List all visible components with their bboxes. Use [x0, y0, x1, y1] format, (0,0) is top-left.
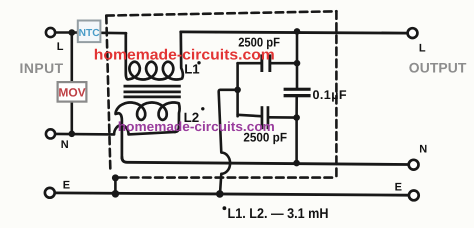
junction E wire / shield stub — [112, 190, 120, 198]
shield box top border (dashed) — [106, 11, 336, 15]
inductor L1 — [126, 32, 183, 80]
terminal L input — [46, 28, 55, 37]
terminal N output — [409, 160, 419, 170]
shield box left border (dashed) — [106, 16, 110, 172]
svg-text:0.1µF: 0.1µF — [313, 88, 347, 102]
junction N rail node — [293, 160, 300, 167]
junction L input / MOV / NTC — [69, 29, 76, 36]
wire top rail L — [181, 32, 408, 33]
wire NTC to L1 top corner — [100, 31, 126, 34]
junction L rail to cap network — [294, 28, 301, 35]
terminal E input — [45, 188, 55, 198]
svg-text:INPUT: INPUT — [20, 60, 64, 76]
core lines — [124, 86, 181, 97]
svg-text:N: N — [61, 139, 69, 151]
wire junction to NTC — [72, 31, 78, 34]
svg-text:E: E — [63, 180, 70, 192]
capacitor C3 plates (0.1uF) — [284, 88, 311, 91]
svg-text:OUTPUT: OUTPUT — [409, 60, 467, 76]
capacitor C1 plates (2500 pF top) — [260, 54, 310, 129]
svg-text:MOV: MOV — [58, 86, 85, 100]
svg-text:N: N — [419, 143, 427, 155]
terminal L output — [408, 28, 418, 38]
capacitor C2 2500pF bottom: left wire — [238, 115, 261, 116]
MOV varistor box — [58, 82, 87, 102]
svg-text:L1. L2. — 3.1 mH: L1. L2. — 3.1 mH — [228, 205, 329, 221]
wire bottom-cap junction down to N rail — [295, 118, 298, 163]
capacitor C2 plates (2500 pF bottom) — [261, 106, 264, 129]
wire N input with hop over L2 lead — [56, 125, 176, 134]
junction C2 right plate / C3 bottom node — [293, 114, 300, 121]
NTC thermistor box — [78, 21, 101, 43]
shield box right border (dashed) — [335, 11, 338, 177]
note L1 L2 value — [223, 206, 227, 210]
svg-text:homemade-circuits.com: homemade-circuits.com — [94, 48, 275, 64]
svg-text:E: E — [395, 182, 402, 194]
junction E wire / cap midpoint earth wire — [216, 190, 224, 198]
wire N rail (L2 left lead to N output) — [122, 157, 408, 165]
capacitor C2 right wire — [269, 116, 296, 119]
terminal N input — [46, 129, 55, 138]
svg-text:homemade-circuits.com: homemade-circuits.com — [118, 119, 275, 134]
junction C1 right plate node — [294, 60, 301, 67]
svg-text:L1: L1 — [184, 61, 199, 76]
wire midpoint to earth with hop over N rail — [219, 90, 238, 194]
wire E input to output — [55, 193, 408, 195]
junction shield corner / earth stub — [112, 174, 119, 181]
wire 0.1uF bottom lead — [295, 98, 298, 118]
svg-text:L: L — [57, 41, 64, 53]
capacitor C1 right wire — [271, 62, 297, 65]
wire L input to junction — [56, 31, 70, 34]
svg-text:L: L — [419, 43, 426, 55]
wire shield-corner earth stub — [114, 178, 117, 194]
wire cap midpoint left vertical — [236, 63, 239, 116]
wire cap-network vertical top (L rail to 0.1uF) — [296, 31, 299, 87]
terminal E output — [409, 191, 419, 201]
shield box bottom border (dashed) — [117, 176, 332, 179]
inductor L2 — [116, 103, 180, 159]
junction cap midpoint node — [234, 87, 241, 94]
wire MOV branch vertical — [71, 33, 74, 134]
svg-text:NTC: NTC — [79, 28, 101, 39]
capacitor C1 2500pF top: left wire — [238, 62, 261, 65]
junction N input / MOV — [69, 131, 76, 138]
